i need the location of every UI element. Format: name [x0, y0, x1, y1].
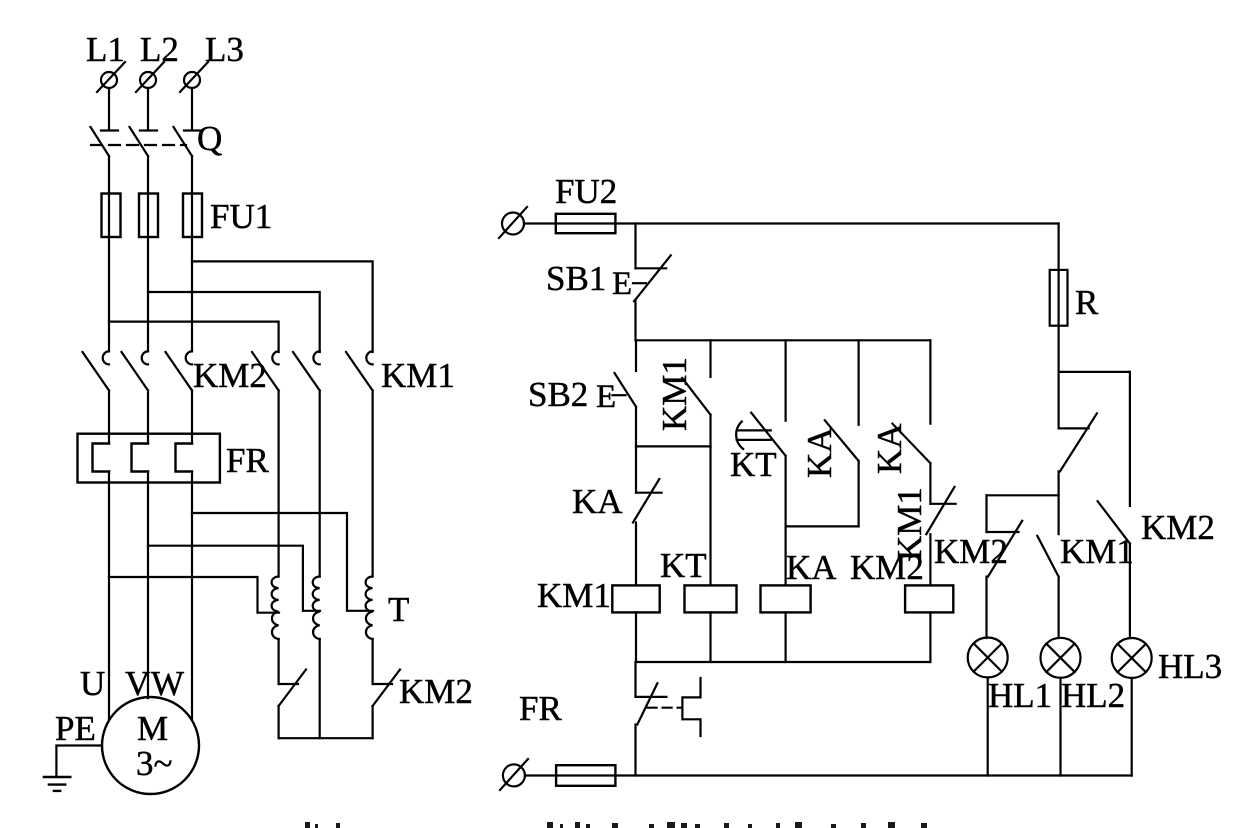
lamp HL1 [968, 638, 1008, 678]
terminal L3 [180, 62, 208, 92]
wire KA coil to bottom link [784, 612, 786, 662]
svg-text:KM2: KM2 [850, 548, 924, 587]
contactor KM1 interlock contact (NC) [926, 487, 955, 534]
wire bottom link [636, 661, 930, 663]
wire HL1 to bottom rail [987, 678, 989, 776]
caption (clipped figure title) [305, 822, 927, 828]
wire L3 to Q [191, 88, 193, 130]
svg-text:FR: FR [226, 441, 269, 480]
contactor KM2 star contact 2 (NC) [373, 670, 400, 707]
wire KM2 contact 2 to FR [147, 391, 149, 444]
wire junction to KA coil [784, 526, 786, 585]
contactor coil KM1 [612, 585, 659, 612]
relay KA contact 1 (NO) [825, 420, 859, 461]
wire tap W to transformer coil 3 [192, 513, 373, 611]
contactor KM1 main contact 2 [293, 351, 320, 390]
wire to KM2 lamp contact (HL3) [1129, 372, 1131, 506]
wire bus1 [636, 339, 931, 341]
contactor KM1 main contact 3 [346, 351, 373, 390]
svg-text:Q: Q [197, 119, 222, 158]
wire junction KT/KA columns [786, 525, 859, 527]
wire NC contact down [1057, 471, 1059, 534]
wire control bottom rail [525, 774, 1132, 776]
transformer T coil 3 [366, 577, 373, 640]
wire split to HL1 branch [987, 494, 1059, 496]
FR heater symbol (control side) [682, 678, 700, 736]
wire HL3 to bottom rail [1131, 678, 1133, 776]
svg-text:R: R [1075, 283, 1099, 322]
wire KM2 contact 1 to FR [108, 391, 110, 444]
contactor KM2 star contact 1 (NC) [279, 670, 306, 707]
terminal (control top) [499, 207, 527, 238]
svg-text:3~: 3~ [136, 744, 172, 783]
wire Q pole3 to FU1 [191, 156, 193, 351]
wire tap U to transformer coil 1 [109, 577, 279, 613]
wire KM1 contact 2 to transformer [319, 391, 321, 577]
svg-text:L3: L3 [205, 30, 244, 69]
svg-text:KM2: KM2 [399, 672, 473, 711]
svg-text:KA: KA [786, 548, 837, 587]
wire L2 to Q [147, 88, 149, 130]
svg-text:L1: L1 [86, 30, 125, 69]
wire FR to motor V [147, 472, 149, 699]
wire KM1 coil to bottom link [635, 612, 637, 662]
relay KA contact (NC) [633, 479, 662, 523]
svg-text:E: E [612, 266, 632, 302]
contactor KM1 auxiliary contact (NO, seal-in) [682, 378, 710, 415]
svg-text:M: M [137, 709, 168, 748]
wire bus1 to KT contact [784, 340, 786, 420]
wire KM1 contact 3 to transformer [372, 391, 374, 577]
terminal L2 [136, 62, 164, 92]
contactor KM1 main contact 1 [252, 351, 279, 390]
contactor coil KM2 [905, 585, 953, 612]
wire star point bus [279, 737, 373, 739]
lamp HL2 [1041, 638, 1081, 678]
transformer T coil 1 [272, 577, 279, 640]
resistor R [1050, 270, 1068, 326]
terminal L1 [97, 62, 125, 92]
svg-text:HL2: HL2 [1061, 676, 1125, 715]
wire PE from motor [56, 746, 102, 778]
wire coil2 to star point [319, 639, 321, 738]
wire branch L3 to KM1 contact 3 [192, 261, 373, 352]
svg-text:FU2: FU2 [555, 172, 617, 211]
lamp HL3 [1112, 638, 1152, 678]
wire control top rail [524, 222, 1059, 224]
timer KT delayed contact (NO, on-delay) [736, 413, 785, 456]
wire KM1 contact 1 to transformer [278, 391, 280, 577]
wire link to KA contact [635, 446, 637, 492]
wire link SB2/KM1 [636, 445, 711, 447]
switch Q linkage (dashed) [91, 144, 186, 146]
contactor KM1 contact (NO, HL2) [1037, 536, 1058, 577]
ground symbol [44, 777, 70, 791]
wire top rail to SB1 [634, 224, 636, 269]
svg-text:KM2: KM2 [1141, 508, 1215, 547]
thermal relay FR box [78, 434, 220, 483]
wire KA contact to KM1 coil [635, 523, 637, 586]
wire link to KT coil [709, 446, 711, 585]
wire SB1 to bus1 [634, 301, 636, 340]
wire bus1 to KA contact 1 [857, 340, 859, 425]
wire Q pole2 to FU1 [147, 156, 149, 351]
wire star contact 2 down [372, 706, 374, 738]
wire Q pole1 to FU1 [108, 156, 110, 351]
svg-text:SB2: SB2 [528, 375, 588, 414]
wire KM2 coil to bottom link [929, 612, 931, 662]
wire R split to HL3 branch [1059, 371, 1130, 373]
relay coil KA [761, 585, 811, 612]
wire KA contact 2 to KM1 interlock [929, 463, 931, 504]
wire KM2 contact to HL1 [985, 577, 987, 638]
contactor KM2 main contact 3 [166, 351, 193, 390]
wire bottom link to FR contact [634, 662, 636, 697]
svg-text:KM1: KM1 [655, 357, 694, 431]
fuse FU1 element 2 [139, 194, 158, 238]
fuse FU3 (bottom, unlabeled) [556, 765, 615, 786]
wire KM2 contact 3 to FR [191, 391, 193, 444]
wire FR contact to bottom rail [634, 725, 636, 776]
contactor KM2 contact (NC, HL1) [987, 521, 1023, 577]
pushbutton SB1 (NC) [633, 255, 671, 301]
fuse FU2 [556, 214, 616, 233]
FR heater element 1 [93, 444, 110, 472]
svg-text:KM1: KM1 [1060, 532, 1134, 571]
svg-text:KA: KA [870, 423, 909, 474]
svg-text:L2: L2 [140, 30, 179, 69]
wire bus1 to KM1 aux contact [709, 340, 711, 377]
terminal (control bottom) [500, 759, 528, 790]
contact below R (NC) [1059, 372, 1097, 472]
svg-text:KT: KT [730, 445, 777, 484]
svg-text:U: U [80, 664, 105, 703]
contactor KM2 main contact 2 [122, 351, 149, 390]
wire top rail to R [1057, 224, 1059, 372]
fuse FU1 element 1 [102, 194, 121, 238]
wire KT contact down [784, 456, 786, 527]
wire SB2 actuator dash [613, 394, 626, 396]
FR heater element 2 [132, 444, 149, 472]
fuse FU1 element 3 [183, 194, 202, 238]
wire KM1 contact to HL2 [1057, 577, 1059, 638]
svg-text:HL1: HL1 [988, 676, 1052, 715]
svg-text:FU1: FU1 [210, 197, 272, 236]
wire L1 to Q [108, 88, 110, 130]
wire HL2 to bottom rail [1059, 678, 1061, 776]
wire to KM2 lamp contact (HL1) [985, 495, 987, 532]
svg-text:E: E [596, 379, 616, 415]
wire KM1 interlock to KM2 coil [929, 534, 931, 585]
wire star contact 1 down [278, 706, 280, 738]
wire KM2 contact to HL3 [1129, 544, 1131, 638]
thermal relay FR contact (NC) [636, 683, 667, 724]
transformer T coil 2 [313, 577, 320, 640]
wire KM1 aux to link [709, 415, 711, 447]
switch Q pole 2 [130, 127, 158, 156]
contactor KM2 contact (NO, HL3) [1098, 501, 1130, 543]
svg-text:HL3: HL3 [1158, 647, 1222, 686]
svg-text:KM2: KM2 [934, 532, 1008, 571]
svg-text:KM1: KM1 [537, 576, 611, 615]
wire FR to motor U [108, 472, 110, 721]
svg-text:PE: PE [55, 709, 96, 748]
svg-text:SB1: SB1 [546, 259, 606, 298]
switch Q pole 3 [174, 127, 202, 156]
wire branch L2 to KM1 contact 2 [148, 292, 320, 352]
wire SB2 to link [635, 407, 637, 447]
FR heater element 3 [176, 444, 193, 472]
wire coil3 to KM2 star contact 2 [372, 639, 374, 684]
timer coil KT [685, 585, 737, 612]
wire FR to motor W [191, 472, 193, 721]
svg-text:KM1: KM1 [381, 356, 455, 395]
wire FR actuator dashes [648, 707, 682, 709]
relay KA contact 2 (NO) [893, 424, 931, 464]
wire bus1 to SB2 [635, 340, 637, 371]
wire tap V to transformer coil 2 [148, 546, 320, 611]
svg-text:KT: KT [660, 546, 707, 585]
wire KA contact 1 down [857, 461, 859, 527]
wire KT coil to bottom link [709, 612, 711, 662]
svg-text:T: T [388, 590, 409, 629]
wire branch L1 to KM1 contact 1 [109, 322, 279, 352]
wire coil1 to KM2 star contact 1 [278, 639, 280, 684]
svg-text:KA: KA [572, 482, 623, 521]
motor M 3~ [102, 697, 199, 794]
svg-text:KM2: KM2 [193, 356, 267, 395]
contactor KM2 main contact 1 [83, 351, 110, 390]
switch Q pole 1 [91, 127, 119, 156]
svg-text:KA: KA [800, 427, 839, 478]
svg-text:FR: FR [519, 689, 562, 728]
wire bus1 to KA contact 2 [929, 340, 931, 423]
pushbutton SB2 (NO) [615, 373, 637, 407]
